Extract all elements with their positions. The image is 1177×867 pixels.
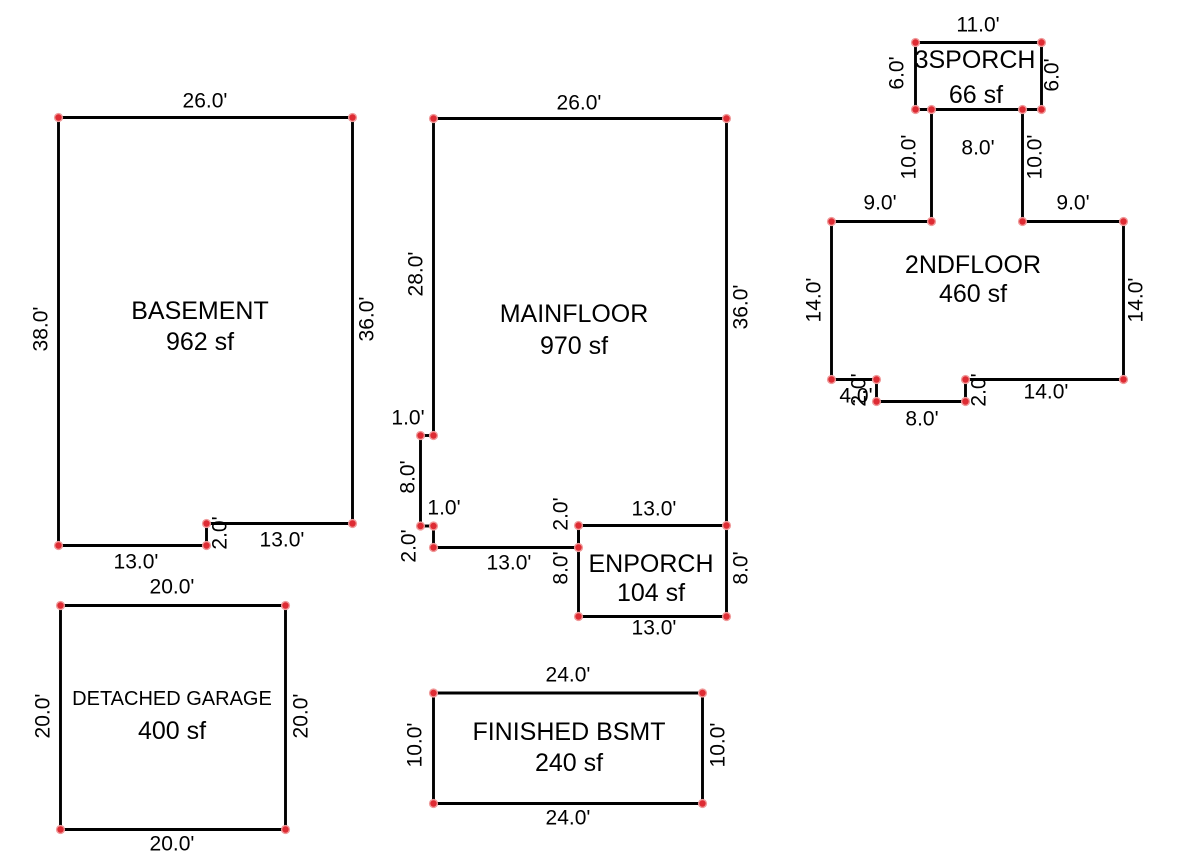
vertex 2NDFLOOR notch-right-top bbox=[961, 375, 970, 384]
wall GARAGE left 20.0' bbox=[59, 606, 62, 830]
svg-text:8.0': 8.0' bbox=[550, 551, 573, 584]
wall FINISHED-BSMT top 24.0' bbox=[434, 692, 703, 695]
wall 2NDFLOOR neck-left 10.0' bbox=[930, 110, 933, 222]
svg-text:8.0': 8.0' bbox=[397, 460, 420, 493]
wall 2NDFLOOR bottom-left 4.0' bbox=[832, 378, 877, 381]
svg-text:2.0': 2.0' bbox=[209, 516, 232, 549]
svg-text:ENPORCH: ENPORCH bbox=[588, 550, 713, 578]
vertex BASEMENT notch-top bbox=[202, 519, 211, 528]
vertex MAINFLOOR SW bbox=[429, 543, 438, 552]
svg-text:2NDFLOOR: 2NDFLOOR bbox=[905, 251, 1041, 279]
vertex 2NDFLOOR shoulder-right bbox=[1119, 217, 1128, 226]
vertex FINISHED-BSMT SE bbox=[698, 799, 707, 808]
svg-text:9.0': 9.0' bbox=[863, 192, 896, 215]
svg-text:24.0': 24.0' bbox=[546, 807, 591, 830]
svg-text:10.0': 10.0' bbox=[707, 723, 730, 768]
svg-text:BASEMENT: BASEMENT bbox=[131, 297, 269, 325]
svg-text:13.0': 13.0' bbox=[632, 617, 677, 640]
wall MAINFLOOR bottom 13.0' bbox=[434, 546, 579, 549]
svg-text:28.0': 28.0' bbox=[405, 252, 428, 297]
wall MAINFLOOR right 36.0' bbox=[725, 119, 728, 526]
vertex 2NDFLOOR neck-right-bottom bbox=[1018, 217, 1027, 226]
svg-text:13.0': 13.0' bbox=[114, 551, 159, 574]
svg-text:8.0': 8.0' bbox=[905, 408, 938, 431]
svg-text:20.0': 20.0' bbox=[32, 694, 55, 739]
svg-text:400 sf: 400 sf bbox=[138, 717, 206, 745]
wall 3SPORCH top 11.0' bbox=[916, 41, 1042, 44]
vertex 2NDFLOOR neck-left-bottom bbox=[927, 217, 936, 226]
svg-text:MAINFLOOR: MAINFLOOR bbox=[500, 300, 649, 328]
wall ENPORCH right 8.0' bbox=[725, 526, 728, 617]
svg-text:26.0': 26.0' bbox=[183, 90, 228, 113]
svg-text:460 sf: 460 sf bbox=[939, 280, 1007, 308]
svg-text:20.0': 20.0' bbox=[150, 576, 195, 599]
svg-text:2.0': 2.0' bbox=[848, 373, 871, 406]
vertex 2NDFLOOR shoulder-left bbox=[827, 217, 836, 226]
svg-text:38.0': 38.0' bbox=[30, 307, 53, 352]
svg-text:11.0': 11.0' bbox=[956, 14, 999, 37]
wall 2NDFLOOR shoulder-left 9.0' bbox=[832, 220, 932, 223]
vertex 2NDFLOOR bottom-right bbox=[1119, 375, 1128, 384]
svg-text:14.0': 14.0' bbox=[1125, 278, 1148, 323]
vertex FINISHED-BSMT NW bbox=[429, 688, 438, 697]
vertex 3SPORCH NE bbox=[1037, 38, 1046, 47]
svg-text:9.0': 9.0' bbox=[1056, 192, 1089, 215]
svg-text:24.0': 24.0' bbox=[546, 664, 591, 687]
vertex ENPORCH SW bbox=[574, 612, 583, 621]
svg-text:13.0': 13.0' bbox=[487, 552, 532, 575]
wall BASEMENT left 38.0' bbox=[57, 118, 60, 546]
vertex 3SPORCH SW bbox=[911, 105, 920, 114]
wall 3SPORCH bottom 8.0' bbox=[916, 108, 1042, 111]
svg-text:10.0': 10.0' bbox=[898, 135, 921, 180]
wall BASEMENT bottom-right 13.0' bbox=[207, 522, 353, 525]
vertex BASEMENT SW bbox=[54, 541, 63, 550]
svg-text:FINISHED BSMT: FINISHED BSMT bbox=[472, 718, 665, 746]
wall BASEMENT top 26.0' bbox=[59, 116, 353, 119]
svg-text:10.0': 10.0' bbox=[404, 723, 427, 768]
svg-text:1.0': 1.0' bbox=[391, 407, 424, 430]
vertex ENPORCH NW bbox=[574, 521, 583, 530]
vertex MAINFLOOR jog-top-left bbox=[416, 431, 425, 440]
svg-text:14.0': 14.0' bbox=[1024, 381, 1069, 404]
vertex GARAGE SW bbox=[56, 825, 65, 834]
svg-text:13.0': 13.0' bbox=[260, 529, 305, 552]
svg-text:1.0': 1.0' bbox=[427, 497, 460, 520]
svg-text:DETACHED GARAGE: DETACHED GARAGE bbox=[72, 688, 272, 710]
wall BASEMENT bottom-left 13.0' bbox=[59, 544, 207, 547]
wall FINISHED-BSMT right 10.0' bbox=[701, 693, 704, 804]
wall MAINFLOOR jog-top 1.0' bbox=[421, 434, 434, 437]
svg-text:26.0': 26.0' bbox=[557, 92, 602, 115]
wall GARAGE top 20.0' bbox=[61, 604, 286, 607]
vertex MAINFLOOR jog-bottom-left bbox=[416, 521, 425, 530]
svg-text:3SPORCH: 3SPORCH bbox=[915, 46, 1036, 74]
vertex 3SPORCH SE bbox=[1037, 105, 1046, 114]
wall MAINFLOOR top 26.0' bbox=[434, 117, 727, 120]
vertex GARAGE SE bbox=[281, 825, 290, 834]
vertex BASEMENT notch-bottom bbox=[202, 541, 211, 550]
vertex 2NDFLOOR neck-right-top bbox=[1018, 105, 1027, 114]
vertex GARAGE NW bbox=[56, 601, 65, 610]
wall ENPORCH bottom 13.0' bbox=[579, 615, 727, 618]
vertex MAINFLOOR jog-top-right bbox=[429, 431, 438, 440]
svg-text:20.0': 20.0' bbox=[290, 694, 313, 739]
wall MAINFLOOR left-lower 2.0' bbox=[432, 526, 435, 548]
wall ENPORCH top 13.0' bbox=[579, 524, 727, 527]
svg-text:36.0': 36.0' bbox=[356, 297, 379, 342]
vertex FINISHED-BSMT SW bbox=[429, 799, 438, 808]
wall MAINFLOOR step-up 2.0' bbox=[577, 526, 580, 548]
wall 2NDFLOOR notch-left 2.0' bbox=[875, 380, 878, 402]
vertex GARAGE NE bbox=[281, 601, 290, 610]
wall ENPORCH left 8.0' bbox=[577, 526, 580, 617]
vertex 3SPORCH NW bbox=[911, 38, 920, 47]
svg-text:2.0': 2.0' bbox=[968, 373, 991, 406]
svg-text:14.0': 14.0' bbox=[803, 278, 826, 323]
wall GARAGE bottom 20.0' bbox=[61, 828, 286, 831]
vertex 2NDFLOOR notch-left-top bbox=[872, 375, 881, 384]
svg-text:2.0': 2.0' bbox=[398, 529, 421, 562]
svg-text:6.0': 6.0' bbox=[886, 56, 909, 89]
wall MAINFLOOR left-mid 8.0' bbox=[419, 436, 422, 527]
wall FINISHED-BSMT left 10.0' bbox=[432, 693, 435, 804]
vertex MAINFLOOR NE bbox=[722, 114, 731, 123]
wall 2NDFLOOR left 14.0' bbox=[830, 222, 833, 380]
vertex ENPORCH SE bbox=[722, 612, 731, 621]
vertex BASEMENT NW bbox=[54, 113, 63, 122]
vertex MAINFLOOR SE bbox=[574, 543, 583, 552]
svg-text:20.0': 20.0' bbox=[150, 833, 195, 856]
svg-text:8.0': 8.0' bbox=[730, 551, 753, 584]
svg-text:962 sf: 962 sf bbox=[166, 328, 234, 356]
wall MAINFLOOR jog-bottom 1.0' bbox=[421, 525, 434, 528]
wall 2NDFLOOR shoulder-right 9.0' bbox=[1023, 220, 1124, 223]
vertex ENPORCH NE bbox=[722, 521, 731, 530]
vertex BASEMENT SE bbox=[348, 519, 357, 528]
svg-text:2.0': 2.0' bbox=[550, 497, 573, 530]
svg-text:6.0': 6.0' bbox=[1041, 58, 1064, 91]
wall 3SPORCH left 6.0' bbox=[914, 43, 917, 110]
wall 2NDFLOOR bottom-right 14.0' bbox=[966, 378, 1124, 381]
wall GARAGE right 20.0' bbox=[284, 606, 287, 830]
wall FINISHED-BSMT bottom 24.0' bbox=[434, 802, 703, 805]
svg-text:8.0': 8.0' bbox=[961, 137, 994, 160]
wall 2NDFLOOR notch-right 2.0' bbox=[964, 380, 967, 402]
wall 2NDFLOOR notch-bottom 8.0' bbox=[877, 400, 966, 403]
wall 2NDFLOOR neck-right 10.0' bbox=[1021, 110, 1024, 222]
svg-text:66 sf: 66 sf bbox=[949, 81, 1003, 109]
svg-text:13.0': 13.0' bbox=[632, 498, 677, 521]
wall 2NDFLOOR right 14.0' bbox=[1122, 222, 1125, 380]
wall 3SPORCH right 6.0' bbox=[1040, 43, 1043, 110]
wall BASEMENT right 36.0' bbox=[351, 118, 354, 524]
wall MAINFLOOR left-upper 28.0' bbox=[432, 119, 435, 436]
vertex 2NDFLOOR notch-right-bottom bbox=[961, 397, 970, 406]
vertex FINISHED-BSMT NE bbox=[698, 688, 707, 697]
vertex MAINFLOOR jog-bottom-right bbox=[429, 521, 438, 530]
svg-text:36.0': 36.0' bbox=[730, 285, 753, 330]
svg-text:10.0': 10.0' bbox=[1024, 135, 1047, 180]
vertex MAINFLOOR NW bbox=[429, 114, 438, 123]
vertex BASEMENT NE bbox=[348, 113, 357, 122]
wall BASEMENT notch 2.0' bbox=[205, 524, 208, 546]
vertex 2NDFLOOR notch-left-bottom bbox=[872, 397, 881, 406]
vertex 2NDFLOOR bottom-left bbox=[827, 375, 836, 384]
svg-text:240 sf: 240 sf bbox=[535, 749, 603, 777]
svg-text:104 sf: 104 sf bbox=[617, 579, 685, 607]
vertex 2NDFLOOR neck-left-top bbox=[927, 105, 936, 114]
svg-text:970 sf: 970 sf bbox=[540, 332, 608, 360]
